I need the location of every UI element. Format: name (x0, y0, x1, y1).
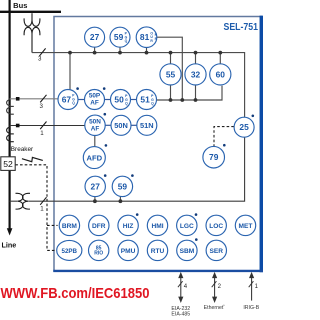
relay 81 (136, 27, 157, 48)
svg-text:WWW.FB.com/IEC61850: WWW.FB.com/IEC61850 (1, 285, 150, 302)
slash 1 (ground CT) (40, 122, 46, 137)
svg-text:2: 2 (218, 284, 222, 290)
svg-text:55: 55 (166, 69, 176, 79)
svg-text:Bus: Bus (13, 1, 27, 10)
CT A winding (7, 100, 14, 114)
feature RTU (147, 240, 167, 260)
feature labels (62, 223, 253, 257)
svg-text:1: 1 (40, 206, 44, 213)
svg-text:59: 59 (114, 32, 124, 42)
svg-text:25: 25 (239, 122, 249, 132)
feature LOC (206, 215, 226, 235)
breaker contact symbol (22, 157, 43, 161)
svg-text:AF: AF (90, 99, 99, 106)
svg-text:SBM: SBM (180, 248, 195, 255)
relay 60 (210, 64, 231, 85)
svg-text:81: 81 (140, 32, 150, 42)
svg-text:AFD: AFD (86, 153, 102, 162)
feature DFR (89, 215, 109, 235)
slash 3 phases (bus PT) (38, 48, 46, 62)
svg-text:27: 27 (91, 181, 101, 191)
relay 25 (234, 117, 254, 137)
feature HMI (147, 215, 167, 235)
feature 52PB (57, 240, 82, 260)
wire stub 55 lower (170, 85, 172, 100)
svg-text:BRM: BRM (62, 223, 78, 230)
svg-text:60: 60 (216, 69, 226, 79)
relay 32 (185, 64, 206, 85)
junction dots current bus (169, 98, 198, 102)
svg-text:EIA-485: EIA-485 (171, 311, 190, 317)
svg-text:Q: Q (151, 102, 154, 106)
svg-text:1: 1 (255, 284, 259, 290)
wire link 50-51 (131, 99, 137, 101)
svg-text:IRIG-B: IRIG-B (243, 305, 259, 311)
svg-text:50N: 50N (114, 121, 128, 130)
relay 27 bus (85, 27, 105, 47)
wire current bus (156, 86, 222, 100)
port arrow IRIG-B (250, 273, 254, 300)
feature BRM (59, 215, 79, 235)
wire stub 81 (146, 47, 148, 53)
function labels top rows (62, 31, 249, 191)
slash 2 (ethernet ports) (212, 281, 222, 290)
breaker 52 box (1, 157, 15, 171)
port arrow EIA (179, 273, 183, 301)
CT polarity square A (16, 97, 20, 101)
transformer PT line side (16, 193, 31, 209)
svg-text:1: 1 (40, 130, 44, 137)
wire line voltage (10, 137, 245, 201)
slash 4 (serial ports) (178, 281, 188, 290)
port arrow Ethernet (213, 273, 217, 301)
feature SBM (177, 240, 197, 260)
svg-text:AF: AF (91, 125, 100, 132)
relay 51 (137, 90, 157, 110)
relay 67 (58, 90, 78, 110)
wire link 50NAF-50N (105, 124, 111, 126)
feature MET (235, 215, 255, 235)
svg-text:27: 27 (90, 32, 100, 42)
wire stub 55 (170, 53, 172, 64)
wire stub 27 (94, 47, 96, 53)
svg-text:HIZ: HIZ (123, 223, 134, 230)
svg-text:Breaker: Breaker (11, 146, 34, 153)
junction dots voltage bus (68, 51, 222, 55)
relay 59 bus (110, 27, 130, 47)
dashed trip wire (15, 165, 57, 251)
wire stub 60 (219, 53, 221, 64)
wire link 67-50P (78, 99, 85, 101)
slash 1 (line PT) (40, 197, 46, 212)
relay 50P AF (85, 90, 105, 110)
transformer PT bus (24, 13, 40, 52)
svg-text:Ethernet*: Ethernet* (204, 304, 226, 311)
feature HIZ (118, 215, 138, 235)
relay 27 line (85, 176, 105, 196)
wire stub 59 (119, 47, 121, 53)
svg-text:RIO: RIO (94, 251, 103, 257)
svg-text:51: 51 (140, 95, 150, 105)
bus bar (0, 11, 61, 13)
wire stub 32 (195, 53, 197, 64)
svg-text:DFR: DFR (92, 223, 106, 230)
feature 85 RIO (89, 240, 109, 260)
wire stub 32 lower (195, 85, 197, 100)
CT polarity square B (16, 124, 20, 128)
wire voltage bus (32, 53, 245, 118)
relay 50N AF (85, 115, 105, 135)
relay 55 (160, 64, 181, 85)
svg-text:79: 79 (209, 152, 219, 162)
CT 3-phase tap wire (10, 98, 58, 100)
relay 50 (111, 90, 131, 110)
svg-text:32: 32 (191, 69, 201, 79)
wire link 50N-51N (131, 124, 137, 126)
slash 3 (phase CTs) (40, 95, 47, 110)
svg-text:Line: Line (2, 241, 17, 250)
junction dots line voltage (93, 199, 122, 203)
svg-text:67: 67 (62, 95, 72, 105)
svg-text:51N: 51N (140, 121, 154, 130)
option dots bottom (136, 213, 198, 241)
svg-text:PMU: PMU (121, 248, 136, 255)
relay 59 line (112, 176, 132, 196)
option dots upper (76, 87, 254, 177)
feature LGC (177, 215, 197, 235)
CT ground tap wire (10, 125, 85, 127)
svg-text:Q: Q (125, 102, 128, 106)
svg-text:RTU: RTU (151, 248, 165, 255)
wire AFD stub (94, 135, 96, 146)
svg-text:4: 4 (184, 284, 188, 290)
svg-text:HMI: HMI (151, 223, 163, 230)
feature PMU (118, 240, 138, 260)
port label EIA (171, 306, 190, 318)
wire 81 frequency tie (157, 37, 183, 100)
svg-text:MET: MET (239, 223, 253, 230)
feature SER (206, 240, 226, 260)
wire link 50P-50 (105, 99, 111, 101)
relay 79 (203, 146, 225, 168)
feeder line (7, 0, 13, 236)
element circles (58, 27, 254, 197)
relay box SEL-751 (54, 17, 261, 272)
svg-text:SER: SER (210, 248, 224, 255)
slash 1 (irig port) (249, 281, 259, 290)
svg-text:SEL-751: SEL-751 (224, 22, 259, 33)
svg-text:3: 3 (38, 55, 42, 62)
relay box bottom border (53, 270, 263, 272)
svg-text:Q: Q (125, 39, 128, 43)
wire stub 27 line-side (94, 197, 96, 202)
svg-text:F: F (155, 37, 157, 41)
wire drop to 67 (69, 53, 71, 90)
relay box right border (260, 16, 264, 273)
svg-text:LOC: LOC (209, 223, 223, 230)
svg-text:50: 50 (114, 95, 124, 105)
dashed wire 25 to 79 (214, 127, 234, 146)
relay 51N (137, 115, 157, 135)
wire stub 59 line-side (119, 197, 121, 202)
svg-text:52: 52 (3, 159, 13, 169)
svg-text:3: 3 (40, 103, 44, 110)
relay AFD (83, 147, 105, 169)
relay 50N (111, 115, 131, 135)
CT B winding (7, 127, 14, 141)
svg-text:59: 59 (118, 181, 128, 191)
svg-text:Q: Q (72, 101, 75, 105)
svg-text:52PB: 52PB (62, 248, 78, 255)
svg-text:LGC: LGC (180, 223, 194, 230)
feature circles bottom grid (57, 215, 256, 260)
